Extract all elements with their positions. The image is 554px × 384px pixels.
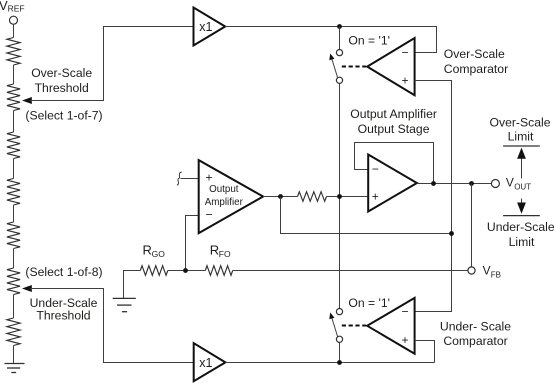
resistor unlabeled output xyxy=(298,192,327,202)
svg-text:Limit: Limit xyxy=(508,130,534,144)
svg-text:Threshold: Threshold xyxy=(35,81,89,95)
wire xyxy=(13,111,15,133)
resistor RFO xyxy=(205,243,232,276)
svg-text:Output Stage: Output Stage xyxy=(358,122,430,136)
wire xyxy=(13,205,15,222)
svg-text:Comparator: Comparator xyxy=(444,62,508,76)
wire switch bottom contact down to summing node xyxy=(339,83,341,308)
node junction feedback summing xyxy=(183,268,188,273)
wire xyxy=(13,159,15,179)
limit range arrow xyxy=(517,148,526,214)
svg-text:FO: FO xyxy=(219,249,231,259)
op-amp x1 buffer top xyxy=(194,8,226,46)
wire comparator plus inputs vertical bus xyxy=(415,81,452,312)
node junction sense bus xyxy=(449,231,454,236)
label On = 1 (bottom) xyxy=(348,296,390,310)
node VOUT terminal xyxy=(491,175,531,191)
svg-text:Over-Scale: Over-Scale xyxy=(490,115,551,129)
label Output Amplifier Output Stage xyxy=(350,107,437,136)
wire sense line to comparator bus xyxy=(281,197,452,234)
wire xyxy=(13,249,15,269)
under-scale limit bar xyxy=(503,215,540,217)
svg-text:x1: x1 xyxy=(199,356,212,370)
wire VFB vertical xyxy=(471,184,473,267)
op-amp x1 buffer bottom xyxy=(194,343,226,381)
svg-text:Under-Scale: Under-Scale xyxy=(487,220,554,234)
op-amp over-scale comparator xyxy=(367,38,414,95)
op-amp output stage xyxy=(368,155,417,212)
wire rail to switch top contact xyxy=(339,27,341,50)
svg-text:V: V xyxy=(483,263,491,277)
resistor ladder segment R3 xyxy=(7,132,20,159)
svg-text:Under- Scale: Under- Scale xyxy=(440,319,511,333)
svg-text:−: − xyxy=(372,162,379,176)
wire RGO to RFO node xyxy=(168,270,206,272)
wire resistor to output stage + input xyxy=(327,196,369,198)
node junction VFB tap xyxy=(469,181,474,186)
svg-text:Over-Scale: Over-Scale xyxy=(31,66,92,80)
wire output stage feedback loop xyxy=(355,143,434,184)
label (Select 1-of-8) xyxy=(25,265,102,279)
svg-text:−: − xyxy=(402,304,409,318)
resistor ladder segment R4 xyxy=(7,179,20,206)
wire xyxy=(13,346,15,364)
wire RFO to VFB xyxy=(233,270,468,272)
svg-text:+: + xyxy=(372,190,379,204)
wire VREF to ladder xyxy=(13,24,15,37)
svg-text:(Select 1-of-7): (Select 1-of-7) xyxy=(25,108,102,122)
wire output amplifier + input xyxy=(181,178,199,180)
op-amp U1 Output Amplifier xyxy=(199,160,263,233)
svg-text:On = '1': On = '1' xyxy=(348,33,390,47)
node under-scale tap arrow xyxy=(22,285,32,292)
node junction output amp output xyxy=(278,194,283,199)
svg-text:R: R xyxy=(210,243,219,258)
wire under-scale tap to bottom x1 buffer input xyxy=(30,289,194,363)
ground ladder bottom xyxy=(5,364,25,373)
resistor ladder segment R2 xyxy=(7,84,20,111)
resistor ladder segment R5 xyxy=(7,222,20,249)
svg-text:−: − xyxy=(206,208,213,222)
over-scale limit bar xyxy=(503,145,540,147)
svg-text:REF: REF xyxy=(8,4,25,14)
wire xyxy=(13,65,15,84)
resistor RGO xyxy=(140,243,168,276)
wire under comparator + input xyxy=(415,341,435,363)
node VREF terminal xyxy=(0,0,25,24)
label Over-Scale Limit xyxy=(490,115,551,143)
wire xyxy=(13,295,15,319)
svg-text:Amplifier: Amplifier xyxy=(205,197,244,208)
wire output amplifier - input to feedback node xyxy=(186,216,199,271)
svg-text:Output: Output xyxy=(209,184,239,195)
wire output stage to VOUT xyxy=(417,183,492,185)
label On = 1 (top) xyxy=(348,33,390,47)
node VFB terminal xyxy=(468,263,501,279)
svg-text:R: R xyxy=(143,243,152,258)
label Over-Scale Comparator xyxy=(444,47,508,76)
resistor ladder segment R7 xyxy=(7,318,20,346)
switch S2 under-scale xyxy=(329,309,342,343)
svg-text:Comparator: Comparator xyxy=(443,334,507,348)
svg-text:−: − xyxy=(402,45,409,59)
node over-scale tap arrow xyxy=(22,97,32,104)
svg-text:On = '1': On = '1' xyxy=(348,296,390,310)
node junction summing xyxy=(337,194,342,199)
svg-text:(Select 1-of-8): (Select 1-of-8) xyxy=(25,265,102,279)
label Under-Scale Limit xyxy=(487,220,554,249)
wire over-scale tap to x1 buffer input xyxy=(30,27,194,101)
svg-text:x1: x1 xyxy=(199,20,212,34)
label Over-Scale Threshold xyxy=(31,66,92,95)
node junction feedback tap xyxy=(431,181,436,186)
label Under- Scale Comparator xyxy=(440,319,511,348)
svg-text:V: V xyxy=(506,175,514,189)
svg-text:OUT: OUT xyxy=(514,182,531,191)
svg-text:Output Amplifier: Output Amplifier xyxy=(350,107,437,121)
wire top rail buffer output to comparator minus xyxy=(225,27,436,53)
svg-text:Under-Scale: Under-Scale xyxy=(30,296,98,310)
svg-text:Threshold: Threshold xyxy=(36,309,90,323)
switch S1 over-scale xyxy=(329,50,342,84)
label Under-Scale Threshold xyxy=(30,296,98,323)
wire break squiggle at output amplifier + input xyxy=(177,172,182,185)
wire output amplifier output row xyxy=(263,196,297,198)
wire switch control dashed bottom xyxy=(342,325,366,327)
svg-text:Limit: Limit xyxy=(509,235,535,249)
svg-text:Over-Scale: Over-Scale xyxy=(444,47,505,61)
resistor ladder segment R1 xyxy=(7,38,20,66)
wire switch bottom to rail xyxy=(339,342,341,362)
resistor ladder segment R6 xyxy=(7,268,20,295)
wire bottom rail xyxy=(225,362,434,364)
op-amp under-scale comparator xyxy=(367,298,414,354)
svg-text:+: + xyxy=(402,73,409,87)
label (Select 1-of-7) xyxy=(25,108,102,122)
node junction bottom rail xyxy=(337,360,342,365)
wire switch control dashed xyxy=(342,66,366,68)
svg-text:FB: FB xyxy=(491,270,501,279)
svg-text:+: + xyxy=(402,333,409,347)
ground RGO xyxy=(113,271,141,312)
node junction top rail xyxy=(337,24,342,29)
svg-text:GO: GO xyxy=(152,249,166,259)
svg-text:+: + xyxy=(206,171,213,185)
